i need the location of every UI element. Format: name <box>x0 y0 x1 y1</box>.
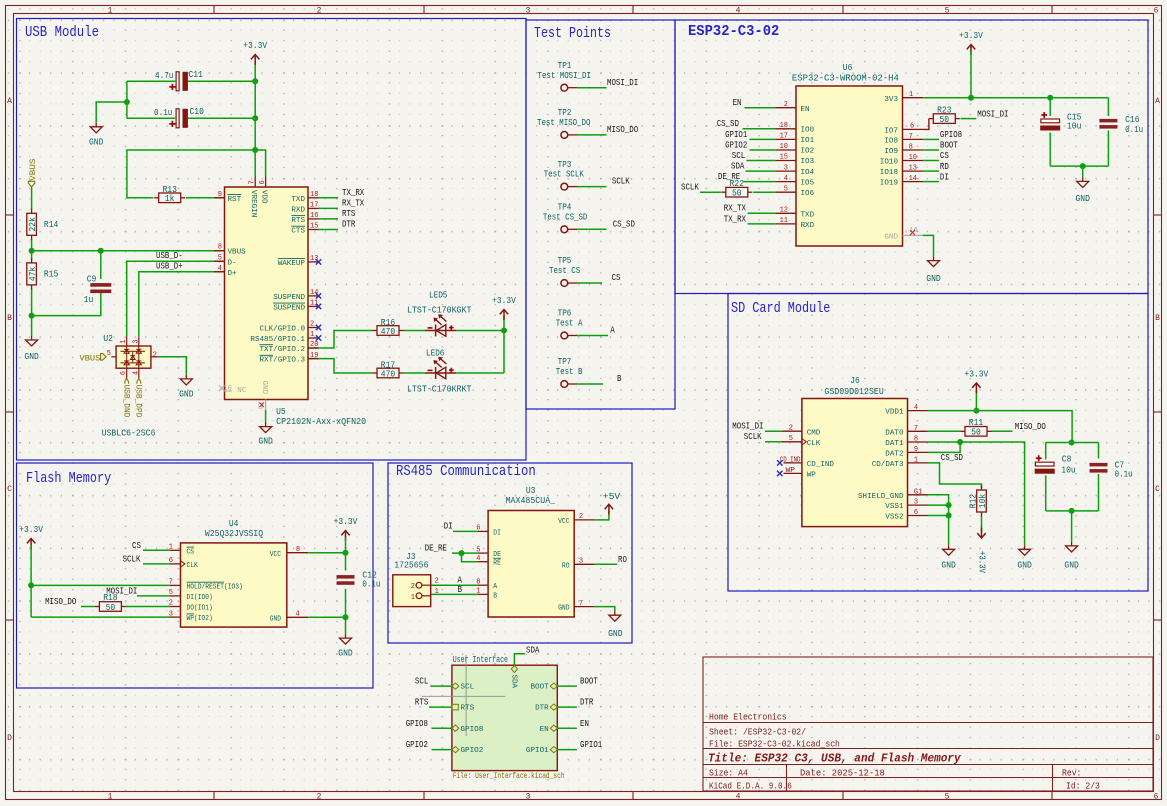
svg-text:Flash Memory: Flash Memory <box>26 470 111 487</box>
svg-text:15: 15 <box>310 223 318 231</box>
svg-text:VBUS: VBUS <box>228 249 247 257</box>
svg-text:A: A <box>458 575 463 585</box>
svg-text:5: 5 <box>945 793 950 802</box>
svg-text:CLK: CLK <box>187 562 199 570</box>
svg-text:CS: CS <box>612 273 621 283</box>
svg-text:47k: 47k <box>28 267 38 281</box>
svg-text:User Interface: User Interface <box>453 654 508 665</box>
svg-text:RTS: RTS <box>342 209 355 219</box>
svg-text:RTS: RTS <box>461 705 475 713</box>
svg-text:C16: C16 <box>1125 115 1139 125</box>
svg-text:TXD: TXD <box>801 211 815 219</box>
svg-text:WP: WP <box>807 472 817 480</box>
svg-text:Sheet: /ESP32-C3-02/: Sheet: /ESP32-C3-02/ <box>709 728 806 738</box>
svg-text:GND: GND <box>884 234 898 242</box>
svg-text:1725656: 1725656 <box>394 560 428 570</box>
svg-text:2: 2 <box>579 513 583 521</box>
svg-text:Test MOSI_DI: Test MOSI_DI <box>538 71 591 81</box>
svg-text:19: 19 <box>310 352 318 360</box>
svg-text:IO2: IO2 <box>801 148 815 156</box>
svg-text:10: 10 <box>223 385 231 393</box>
svg-text:1: 1 <box>108 6 113 15</box>
svg-text:TXT/GPIO.2: TXT/GPIO.2 <box>260 346 306 354</box>
svg-text:3: 3 <box>914 499 918 507</box>
svg-text:SCL: SCL <box>461 684 475 692</box>
svg-text:5: 5 <box>107 350 111 358</box>
svg-text:14: 14 <box>310 289 318 297</box>
svg-text:11: 11 <box>780 217 788 225</box>
svg-text:TP3: TP3 <box>558 160 572 170</box>
svg-text:+3.3V: +3.3V <box>959 31 983 41</box>
svg-text:CS: CS <box>187 548 195 556</box>
svg-text:7: 7 <box>914 425 918 433</box>
svg-text:A: A <box>7 97 12 106</box>
svg-text:TP7: TP7 <box>558 357 572 367</box>
svg-text:Test Points: Test Points <box>534 25 611 42</box>
svg-text:RTS: RTS <box>415 698 428 708</box>
svg-text:CD_IND: CD_IND <box>780 456 801 464</box>
svg-text:IO0: IO0 <box>801 127 815 135</box>
svg-text:A: A <box>610 326 615 336</box>
svg-text:DE: DE <box>493 551 501 559</box>
svg-text:4: 4 <box>914 404 918 412</box>
svg-text:NC: NC <box>237 387 247 395</box>
svg-text:B: B <box>7 314 12 323</box>
svg-text:IO1: IO1 <box>801 137 815 145</box>
svg-text:IO5: IO5 <box>801 179 815 187</box>
svg-text:D: D <box>7 734 12 743</box>
svg-text:Test A: Test A <box>556 319 583 329</box>
svg-text:MOSI_DI: MOSI_DI <box>607 78 638 88</box>
svg-text:U6: U6 <box>843 63 853 73</box>
svg-text:5: 5 <box>784 185 788 193</box>
svg-text:IO6: IO6 <box>801 190 815 198</box>
svg-text:4: 4 <box>296 611 300 619</box>
svg-text:VREGIN: VREGIN <box>249 190 257 217</box>
svg-text:SHIELD_GND: SHIELD_GND <box>858 493 904 501</box>
svg-text:R18: R18 <box>103 593 117 603</box>
svg-text:DI: DI <box>493 529 501 537</box>
svg-text:MISO_DO: MISO_DO <box>1015 422 1046 432</box>
svg-text:1: 1 <box>310 331 314 339</box>
svg-text:EN: EN <box>580 719 589 729</box>
svg-text:10: 10 <box>780 143 788 151</box>
svg-text:U3: U3 <box>526 486 536 496</box>
svg-text:J6: J6 <box>850 376 860 386</box>
svg-text:50: 50 <box>940 115 950 125</box>
svg-text:1u: 1u <box>84 295 94 305</box>
svg-text:R23: R23 <box>937 105 951 115</box>
svg-text:TP2: TP2 <box>558 108 572 118</box>
svg-text:DTR: DTR <box>580 698 594 708</box>
svg-text:SDA: SDA <box>731 162 745 172</box>
svg-text:TP4: TP4 <box>558 203 572 213</box>
svg-text:SCLK: SCLK <box>681 182 699 192</box>
svg-text:Rev:: Rev: <box>1062 769 1081 779</box>
svg-text:12: 12 <box>780 207 788 215</box>
svg-text:R15: R15 <box>44 270 58 280</box>
svg-text:CTS: CTS <box>291 228 305 236</box>
svg-text:BOOT: BOOT <box>531 684 550 692</box>
svg-text:TP6: TP6 <box>558 309 572 319</box>
svg-text:MAX485CUA_: MAX485CUA_ <box>506 496 556 506</box>
svg-text:3: 3 <box>132 340 140 344</box>
svg-text:8: 8 <box>909 144 913 152</box>
svg-text:3: 3 <box>784 164 788 172</box>
svg-text:IO4: IO4 <box>801 169 815 177</box>
svg-text:7: 7 <box>249 180 257 184</box>
svg-text:C11: C11 <box>189 70 203 80</box>
svg-text:RST: RST <box>228 196 242 204</box>
svg-text:A: A <box>493 583 497 591</box>
svg-text:SDA: SDA <box>526 645 540 655</box>
svg-text:USB_D+: USB_D+ <box>156 262 183 272</box>
svg-text:File: User_Interface.kicad_sch: File: User_Interface.kicad_sch <box>453 771 565 781</box>
svg-text:IO19: IO19 <box>880 180 899 188</box>
svg-text:2: 2 <box>317 793 322 802</box>
svg-text:TX_RX: TX_RX <box>724 214 747 224</box>
svg-text:VDD1: VDD1 <box>885 409 904 417</box>
svg-text:GND: GND <box>926 274 940 284</box>
svg-text:GND: GND <box>89 138 103 148</box>
svg-text:CS: CS <box>940 151 949 161</box>
svg-text:IO10: IO10 <box>880 159 899 167</box>
svg-text:13: 13 <box>909 165 917 173</box>
svg-text:50: 50 <box>971 428 981 438</box>
svg-text:2: 2 <box>310 321 314 329</box>
svg-text:8: 8 <box>218 244 222 252</box>
svg-text:U4: U4 <box>229 519 239 529</box>
svg-text:0.1u: 0.1u <box>362 580 380 590</box>
svg-text:6: 6 <box>1154 6 1159 15</box>
svg-text:10: 10 <box>909 154 917 162</box>
svg-text:GPIO1: GPIO1 <box>526 747 549 755</box>
svg-text:RS485 Communication: RS485 Communication <box>396 463 536 480</box>
svg-text:+5V: +5V <box>603 492 621 502</box>
svg-text:SCLK: SCLK <box>744 432 762 442</box>
svg-text:7: 7 <box>909 133 913 141</box>
svg-text:GPIO2: GPIO2 <box>406 740 428 750</box>
svg-text:4: 4 <box>784 175 788 183</box>
svg-text:VDD: VDD <box>259 190 267 204</box>
svg-text:+3.3V: +3.3V <box>492 296 516 306</box>
svg-text:Test CS_SD: Test CS_SD <box>543 212 588 222</box>
svg-text:5: 5 <box>218 254 222 262</box>
svg-text:Id: 2/3: Id: 2/3 <box>1066 782 1100 792</box>
svg-text:470: 470 <box>381 327 395 337</box>
svg-text:11: 11 <box>310 300 318 308</box>
svg-text:RXT/GPIO.3: RXT/GPIO.3 <box>260 357 306 365</box>
svg-text:C10: C10 <box>190 107 204 117</box>
svg-text:B: B <box>458 585 463 595</box>
svg-text:4: 4 <box>218 265 222 273</box>
svg-text:50: 50 <box>732 189 742 199</box>
svg-text:DE_RE: DE_RE <box>425 544 447 554</box>
svg-text:GPIO8: GPIO8 <box>406 719 428 729</box>
svg-text:Date: 2025-12-18: Date: 2025-12-18 <box>800 769 885 779</box>
svg-text:DI: DI <box>444 522 453 532</box>
svg-text:GPIO1: GPIO1 <box>580 740 602 750</box>
svg-text:50: 50 <box>106 603 116 613</box>
svg-text:8: 8 <box>914 436 918 444</box>
svg-text:GND: GND <box>270 615 282 623</box>
svg-text:VCC: VCC <box>270 551 282 559</box>
svg-text:R14: R14 <box>44 220 58 230</box>
svg-text:VSS2: VSS2 <box>885 513 904 521</box>
svg-text:HOLD/RESET(IO3): HOLD/RESET(IO3) <box>187 584 243 592</box>
svg-text:TXD: TXD <box>291 196 305 204</box>
svg-text:10u: 10u <box>1067 121 1081 131</box>
svg-text:4.7u: 4.7u <box>155 71 173 81</box>
svg-text:CS_SD: CS_SD <box>613 219 635 229</box>
svg-text:GND: GND <box>608 629 622 639</box>
svg-text:DAT2: DAT2 <box>885 450 904 458</box>
svg-text:1: 1 <box>120 340 128 344</box>
svg-text:SCL: SCL <box>732 151 745 161</box>
svg-text:B: B <box>617 374 622 384</box>
svg-text:5: 5 <box>945 6 950 15</box>
svg-text:DO(IO1): DO(IO1) <box>187 605 213 613</box>
svg-text:DAT1: DAT1 <box>885 440 904 448</box>
svg-text:TX_RX: TX_RX <box>342 188 365 198</box>
svg-text:USB Module: USB Module <box>25 24 99 41</box>
svg-text:0.1u: 0.1u <box>1115 470 1133 480</box>
svg-text:1: 1 <box>914 456 918 464</box>
svg-text:5: 5 <box>789 435 793 443</box>
svg-text:RX_TX: RX_TX <box>342 199 365 209</box>
svg-text:U5: U5 <box>276 407 286 417</box>
svg-text:RXD: RXD <box>291 206 305 214</box>
svg-text:4: 4 <box>736 6 741 15</box>
svg-text:GND: GND <box>338 649 352 659</box>
svg-text:EN: EN <box>540 726 549 734</box>
svg-text:GSD09D012SEU: GSD09D012SEU <box>824 387 883 397</box>
svg-text:2: 2 <box>784 101 788 109</box>
svg-text:G1: G1 <box>914 488 922 496</box>
svg-text:9: 9 <box>914 446 918 454</box>
svg-text:Home Electronics: Home Electronics <box>709 713 787 723</box>
svg-text:WP(IO2): WP(IO2) <box>187 615 213 623</box>
svg-text:17: 17 <box>310 202 318 210</box>
svg-text:1: 1 <box>909 91 913 99</box>
svg-text:0.1u: 0.1u <box>1125 125 1143 135</box>
svg-text:2: 2 <box>153 351 157 359</box>
svg-text:VCC: VCC <box>558 518 570 526</box>
svg-text:13: 13 <box>310 255 318 263</box>
svg-text:CS: CS <box>132 541 141 551</box>
svg-text:3: 3 <box>526 793 531 802</box>
svg-text:VSS1: VSS1 <box>885 503 904 511</box>
svg-text:GND: GND <box>260 381 268 395</box>
svg-text:Size: A4: Size: A4 <box>709 769 748 779</box>
svg-text:RE: RE <box>493 560 501 568</box>
svg-text:BOOT: BOOT <box>580 677 598 687</box>
svg-text:0.1u: 0.1u <box>154 108 172 118</box>
svg-text:LED6: LED6 <box>426 349 444 359</box>
svg-text:C9: C9 <box>87 275 97 285</box>
svg-text:IO7: IO7 <box>884 128 898 136</box>
svg-text:C8: C8 <box>1062 455 1072 465</box>
svg-text:CMD: CMD <box>807 430 821 438</box>
svg-text:2: 2 <box>411 583 415 591</box>
svg-text:SCLK: SCLK <box>612 177 630 187</box>
svg-text:CLK: CLK <box>807 440 821 448</box>
svg-text:RO: RO <box>618 555 627 565</box>
svg-text:MISO_DO: MISO_DO <box>607 125 638 135</box>
svg-text:EN: EN <box>733 98 742 108</box>
svg-text:A: A <box>1155 97 1160 106</box>
svg-text:IO18: IO18 <box>880 169 899 177</box>
svg-text:+3.3V: +3.3V <box>243 41 267 51</box>
svg-text:6: 6 <box>120 371 128 375</box>
svg-text:470: 470 <box>381 369 395 379</box>
svg-text:GND: GND <box>24 352 38 362</box>
svg-text:CLK/GPIO.0: CLK/GPIO.0 <box>260 326 306 334</box>
svg-text:D+: D+ <box>228 270 238 278</box>
svg-text:15: 15 <box>780 154 788 162</box>
svg-text:GND: GND <box>179 390 193 400</box>
svg-text:SCL: SCL <box>415 677 428 687</box>
svg-text:DTR: DTR <box>342 220 356 230</box>
svg-text:SD Card Module: SD Card Module <box>731 300 830 317</box>
svg-text:MOSI_DI: MOSI_DI <box>977 109 1008 119</box>
svg-text:D-: D- <box>228 259 237 267</box>
svg-text:18: 18 <box>310 191 318 199</box>
svg-text:File: ESP32-C3-02.kicad_sch: File: ESP32-C3-02.kicad_sch <box>709 740 840 750</box>
svg-text:9: 9 <box>218 191 222 199</box>
svg-text:7: 7 <box>579 600 583 608</box>
svg-text:GND: GND <box>1076 194 1090 204</box>
svg-text:LTST-C170KGKT: LTST-C170KGKT <box>407 306 472 316</box>
svg-text:SDA: SDA <box>510 675 518 689</box>
svg-text:2: 2 <box>435 578 439 586</box>
svg-text:GND: GND <box>1017 561 1031 571</box>
svg-text:22k: 22k <box>28 217 38 231</box>
svg-text:SCLK: SCLK <box>123 555 141 565</box>
svg-text:14: 14 <box>909 175 917 183</box>
svg-text:MISO_DO: MISO_DO <box>45 597 76 607</box>
svg-text:6: 6 <box>259 180 267 184</box>
svg-text:LTST-C170KRKT: LTST-C170KRKT <box>407 385 472 395</box>
svg-text:BOOT: BOOT <box>940 141 958 151</box>
svg-text:1: 1 <box>435 588 439 596</box>
svg-text:CS_SD: CS_SD <box>941 453 963 463</box>
svg-text:USB_DPD: USB_DPD <box>134 385 143 418</box>
svg-text:RXD: RXD <box>801 222 815 230</box>
svg-text:6: 6 <box>1154 793 1159 802</box>
svg-text:B: B <box>493 592 497 600</box>
svg-text:IO9: IO9 <box>884 148 898 156</box>
svg-text:2: 2 <box>789 424 793 432</box>
svg-text:VBUS: VBUS <box>29 158 38 181</box>
svg-text:4: 4 <box>736 793 741 802</box>
svg-text:RO: RO <box>562 562 570 570</box>
svg-text:USB_DND: USB_DND <box>121 385 130 418</box>
svg-text:GND: GND <box>258 437 272 447</box>
svg-text:Test B: Test B <box>556 367 583 377</box>
svg-text:6: 6 <box>914 509 918 517</box>
svg-text:TP5: TP5 <box>558 256 572 266</box>
svg-text:MOSI_DI: MOSI_DI <box>732 421 763 431</box>
svg-text:C: C <box>7 485 12 494</box>
svg-text:USBLC6-2SC6: USBLC6-2SC6 <box>102 428 156 438</box>
svg-text:USB_D-: USB_D- <box>156 251 183 261</box>
svg-text:20: 20 <box>310 341 318 349</box>
svg-text:GPIO8: GPIO8 <box>940 130 962 140</box>
svg-text:EN: EN <box>801 106 810 114</box>
svg-text:18: 18 <box>780 122 788 130</box>
svg-text:IO3: IO3 <box>801 158 815 166</box>
svg-text:3: 3 <box>579 558 583 566</box>
svg-text:CD_IND: CD_IND <box>807 461 835 469</box>
svg-text:IO8: IO8 <box>884 138 898 146</box>
svg-text:Test SCLK: Test SCLK <box>544 170 585 180</box>
svg-text:4: 4 <box>132 371 140 375</box>
svg-text:Title: ESP32 C3, USB, and Flas: Title: ESP32 C3, USB, and Flash Memory <box>708 753 962 766</box>
svg-text:CD/DAT3: CD/DAT3 <box>872 461 904 469</box>
svg-text:17: 17 <box>780 133 788 141</box>
svg-text:KiCad E.D.A. 9.0.6: KiCad E.D.A. 9.0.6 <box>709 782 792 792</box>
svg-text:CP2102N-Axx-xQFN20: CP2102N-Axx-xQFN20 <box>276 417 366 427</box>
svg-text:D: D <box>1155 734 1160 743</box>
svg-text:6: 6 <box>910 123 914 131</box>
svg-text:2: 2 <box>317 6 322 15</box>
svg-text:B: B <box>1155 314 1160 323</box>
svg-text:RS485/GPIO.1: RS485/GPIO.1 <box>250 336 305 344</box>
svg-text:3V3: 3V3 <box>884 96 898 104</box>
svg-text:8: 8 <box>296 546 300 554</box>
svg-text:WP: WP <box>786 467 795 475</box>
svg-text:DI: DI <box>940 172 949 182</box>
svg-text:1: 1 <box>411 594 415 602</box>
svg-text:DAT0: DAT0 <box>885 430 904 438</box>
svg-text:WAKEUP: WAKEUP <box>278 260 306 268</box>
svg-text:+3.3V: +3.3V <box>19 525 43 535</box>
svg-text:C: C <box>1155 485 1160 494</box>
svg-text:ESP32-C3-02: ESP32-C3-02 <box>688 23 779 40</box>
svg-text:ESP32-C3-WROOM-02-H4: ESP32-C3-WROOM-02-H4 <box>792 74 899 84</box>
svg-text:GND: GND <box>1064 561 1078 571</box>
svg-text:RD: RD <box>940 162 949 172</box>
svg-text:LED5: LED5 <box>429 291 447 301</box>
svg-text:10k: 10k <box>978 494 988 508</box>
svg-text:1k: 1k <box>165 194 175 204</box>
svg-text:GPIO8: GPIO8 <box>461 726 484 734</box>
svg-text:1: 1 <box>108 793 113 802</box>
svg-text:Test MISO_DO: Test MISO_DO <box>537 118 590 128</box>
svg-text:GND: GND <box>941 561 955 571</box>
svg-text:RTS: RTS <box>291 217 305 225</box>
svg-text:GPIO2: GPIO2 <box>461 747 484 755</box>
svg-text:DI(IO0): DI(IO0) <box>187 594 213 602</box>
svg-text:GPIO2: GPIO2 <box>725 140 747 150</box>
svg-text:W25Q32JVSSIQ: W25Q32JVSSIQ <box>205 529 263 539</box>
svg-text:TP1: TP1 <box>558 61 572 71</box>
svg-text:U2: U2 <box>103 334 113 344</box>
svg-text:3: 3 <box>526 6 531 15</box>
svg-text:VBUS: VBUS <box>80 355 101 364</box>
svg-text:DTR: DTR <box>535 705 549 713</box>
svg-text:+3.3V: +3.3V <box>976 551 986 573</box>
svg-text:Test CS: Test CS <box>549 266 580 276</box>
svg-text:SUSPEND: SUSPEND <box>273 304 305 312</box>
svg-text:GPIO1: GPIO1 <box>725 130 747 140</box>
svg-text:RX_TX: RX_TX <box>724 204 747 214</box>
svg-text:GND: GND <box>558 605 570 613</box>
svg-text:CS_SD: CS_SD <box>717 119 739 129</box>
svg-text:R11: R11 <box>969 418 983 428</box>
svg-text:+3.3V: +3.3V <box>334 517 358 527</box>
